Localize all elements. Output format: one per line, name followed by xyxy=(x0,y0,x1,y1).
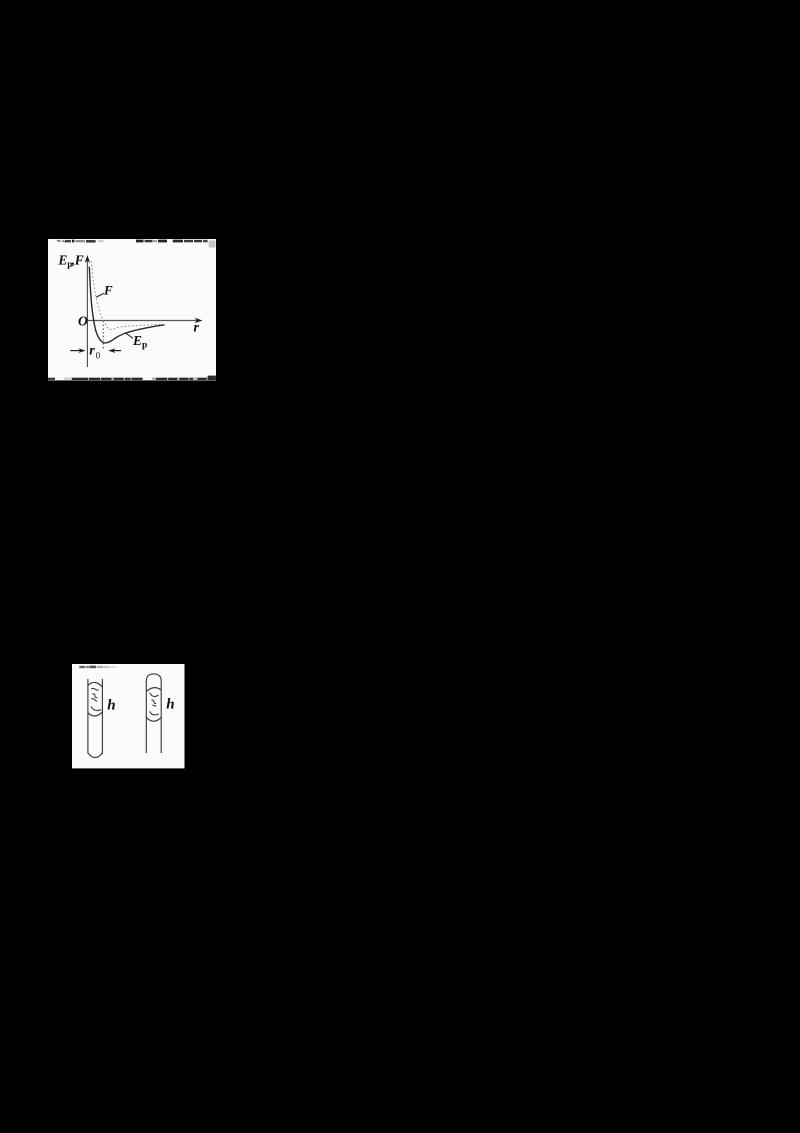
mercury smile 4 xyxy=(150,711,159,715)
left tube mercury lower meniscus xyxy=(88,712,103,716)
svg-text:r: r xyxy=(194,320,200,335)
svg-text:F: F xyxy=(74,252,84,267)
cropped text fragments (bottom row) xyxy=(48,376,216,380)
vertical axis arrowhead xyxy=(85,255,90,263)
right tube right wall xyxy=(160,681,162,753)
right tube dome top xyxy=(146,674,161,681)
mercury squiggle tilde 1 xyxy=(91,688,98,690)
mercury squiggle s 2 xyxy=(92,694,97,698)
dotted vertical line at r0 xyxy=(102,321,104,350)
svg-text:r: r xyxy=(89,344,95,359)
F curve (dashed) xyxy=(91,261,163,329)
panel background xyxy=(72,664,185,768)
right tube left wall xyxy=(145,681,147,753)
cropped text fragments (top row) xyxy=(79,666,116,669)
leader line to Ep label xyxy=(125,333,133,339)
mercury squiggle s 2 xyxy=(152,700,157,703)
svg-text:0: 0 xyxy=(96,351,101,361)
right tube mercury lower meniscus xyxy=(146,717,161,721)
left tube right wall xyxy=(101,679,103,754)
graph panel: molecular force F and potential energy Ep vs separation r xyxy=(48,239,217,381)
svg-text:O: O xyxy=(78,314,88,329)
right arrow pointing left toward dotted line xyxy=(112,350,121,352)
leader line to F label xyxy=(96,293,104,297)
mercury squiggle tilde 3 xyxy=(91,699,97,702)
tubes panel: two tubes with mercury columns of height h xyxy=(72,664,185,769)
left arrow pointing right toward axis xyxy=(70,350,81,352)
mercury inner smile 4 xyxy=(91,706,101,710)
left tube left wall xyxy=(87,679,89,754)
mercury smile 1 xyxy=(150,693,159,697)
svg-text:E: E xyxy=(57,252,67,267)
left tube rounded bottom xyxy=(88,753,103,758)
right tube mercury upper meniscus xyxy=(146,688,161,692)
horizontal axis (r axis) xyxy=(87,320,199,322)
panel background xyxy=(48,239,216,380)
svg-text:F: F xyxy=(103,283,113,298)
left tube mercury upper meniscus xyxy=(88,682,103,687)
svg-text:h: h xyxy=(166,696,174,712)
cropped text fragments (top row) xyxy=(56,240,216,248)
vertical axis (Ep,F axis) xyxy=(86,258,88,367)
mercury dash 3 xyxy=(153,705,157,706)
svg-text:h: h xyxy=(107,697,115,713)
horizontal axis arrowhead xyxy=(195,318,203,323)
Ep curve (solid) xyxy=(89,267,164,343)
